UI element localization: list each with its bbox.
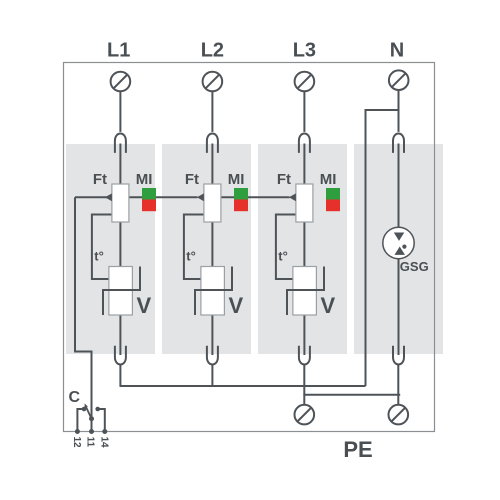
plug-in socket contact bottom N — [393, 346, 404, 365]
svg-text:Ft: Ft — [277, 171, 291, 188]
thermal sensing loop t-deg L2 — [184, 215, 204, 280]
wire contact 11 common leg — [91, 419, 93, 432]
terminal screw L2 — [203, 72, 223, 92]
wire GSG to bottom fork — [398, 259, 400, 355]
terminal dot 12 — [75, 429, 80, 434]
svg-text:N: N — [390, 40, 404, 62]
plug-in socket contact bottom L2 — [207, 346, 218, 365]
enclosure outline — [64, 63, 435, 432]
wire L2 terminal to fork — [211, 91, 213, 132]
wire feed into L1 arrow from C feedback line — [75, 196, 107, 198]
varistor V L2 — [201, 267, 225, 316]
plug-in socket contact top L3 — [299, 134, 310, 153]
thermal sensing loop t-deg L1 — [92, 215, 112, 280]
svg-text:PE: PE — [343, 437, 372, 462]
wire L3 pin through Ft to varistor — [303, 144, 305, 267]
wire L1 pin through Ft to varistor — [119, 144, 121, 267]
terminal dot 11 — [89, 429, 94, 434]
module shading panel L2 — [162, 144, 251, 354]
module shading panel N — [354, 144, 443, 354]
svg-text:12: 12 — [71, 437, 82, 449]
wire L2 Ft output to L3 arrow — [221, 196, 290, 198]
changeover contact C arm — [86, 406, 92, 419]
svg-text:t°: t° — [278, 249, 288, 264]
svg-text:L2: L2 — [201, 40, 224, 62]
terminal screw L3 — [295, 72, 315, 92]
svg-text:V: V — [137, 293, 152, 318]
plug-in socket contact top L2 — [207, 134, 218, 153]
svg-text:t°: t° — [94, 249, 104, 264]
wire L2 pin through Ft to varistor — [211, 144, 213, 267]
thermal disconnector Ft L3 — [296, 184, 313, 222]
varistor V L3 — [293, 267, 317, 316]
wire N branch to ground bus — [366, 110, 399, 386]
wire L1 Ft output to L2 arrow — [129, 196, 198, 198]
wire N pin to GSG — [398, 144, 400, 229]
wire C feedback from L1 disconnector — [75, 197, 92, 418]
wire L2 fork stem to ground bus — [211, 364, 213, 386]
wire L3 fork stem to PE terminal — [303, 364, 305, 405]
svg-text:L3: L3 — [293, 40, 316, 62]
gas discharge tube GSG — [383, 227, 414, 258]
terminal screw PE right — [389, 405, 409, 425]
svg-text:C: C — [69, 389, 81, 406]
ground bus wire upper — [120, 385, 366, 387]
thermal sensing loop t-deg L3 — [276, 215, 296, 280]
plug-in socket contact top L1 — [115, 134, 126, 153]
wire N terminal to fork — [398, 90, 400, 132]
svg-text:Ft: Ft — [185, 171, 199, 188]
wire L2 varistor to bottom fork — [211, 315, 213, 355]
svg-text:V: V — [321, 293, 336, 318]
wire L1 fork stem to ground bus — [119, 364, 121, 386]
svg-text:MI: MI — [228, 171, 245, 188]
thermal disconnector Ft L1 — [112, 184, 129, 222]
terminal screw N — [389, 70, 409, 90]
svg-text:GSG: GSG — [400, 259, 429, 274]
wire L3 varistor to bottom fork — [303, 315, 305, 355]
wire contact 14 leg — [98, 409, 105, 432]
svg-text:11: 11 — [85, 437, 96, 448]
svg-text:L1: L1 — [107, 40, 130, 62]
contact point 12 — [82, 407, 87, 412]
terminal dot 14 — [102, 429, 107, 434]
wire L1 varistor to bottom fork — [119, 315, 121, 355]
varistor V L1 — [109, 267, 132, 316]
status indicator MI L1 — [142, 188, 156, 200]
svg-text:MI: MI — [136, 171, 153, 188]
svg-text:MI: MI — [320, 171, 337, 188]
module shading panel L3 — [258, 144, 347, 354]
status indicator MI L2 — [234, 188, 248, 200]
svg-text:t°: t° — [186, 249, 196, 264]
plug-in socket contact bottom L1 — [115, 346, 126, 365]
terminal screw L1 — [111, 72, 131, 92]
status indicator MI L3 — [326, 188, 340, 200]
svg-text:14: 14 — [98, 437, 109, 449]
wire contact 12 leg — [77, 409, 84, 432]
wire L3 terminal to fork — [303, 91, 305, 132]
plug-in socket contact bottom L3 — [299, 346, 310, 365]
svg-text:V: V — [229, 293, 244, 318]
terminal screw PE left — [295, 405, 315, 425]
plug-in socket contact top N — [393, 134, 404, 153]
wire L1 terminal to fork — [119, 91, 121, 132]
contact point 14 — [95, 407, 100, 412]
wire N fork stem to PE terminal — [397, 364, 399, 405]
module shading panel L1 — [66, 144, 155, 354]
svg-text:Ft: Ft — [93, 171, 107, 188]
thermal disconnector Ft L2 — [204, 184, 221, 222]
contact pivot junction 11 — [89, 416, 94, 421]
ground bus wire lower to PE terminals — [303, 394, 400, 396]
